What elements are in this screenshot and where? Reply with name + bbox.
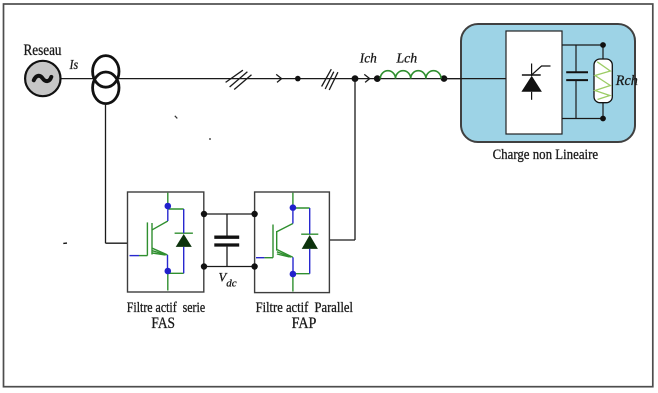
- svg-text:Lch: Lch: [395, 50, 417, 65]
- svg-text:Charge non Lineaire: Charge non Lineaire: [493, 147, 599, 163]
- svg-text:Ich: Ich: [359, 50, 377, 65]
- svg-text:Reseau: Reseau: [24, 42, 62, 59]
- svg-text:FAP: FAP: [292, 315, 317, 332]
- svg-text:dc: dc: [226, 277, 237, 289]
- svg-text:Filtre actif Parallel: Filtre actif Parallel: [256, 300, 353, 316]
- svg-text:Is: Is: [69, 58, 79, 73]
- svg-text:Rch: Rch: [615, 73, 638, 89]
- svg-text:Filtre actif serie: Filtre actif serie: [127, 300, 205, 316]
- svg-text:FAS: FAS: [151, 315, 175, 332]
